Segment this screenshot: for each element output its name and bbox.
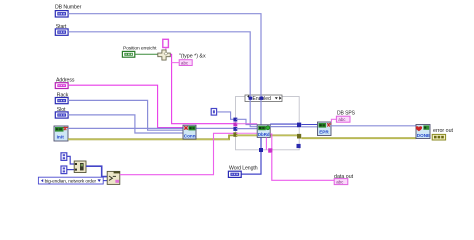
svg-text:abc: abc — [336, 179, 344, 184]
svg-text:DbRd: DbRd — [258, 132, 270, 137]
tunnel top 1 (Start) — [249, 97, 253, 100]
wires structure right to SPS vi — [301, 124, 317, 126]
wire branch to (type*)&x — [172, 62, 180, 64]
terminal DB SPS string indicator — [336, 116, 350, 122]
svg-text:Position erreicht: Position erreicht — [123, 46, 157, 52]
wire boolean to select — [135, 53, 158, 55]
diagram disable structure frame — [236, 97, 300, 150]
subVI Init (S7 init) — [54, 126, 68, 141]
wire constant into structure tunnel — [217, 112, 234, 119]
tunnel left 4 (error/type, olive) — [233, 132, 237, 137]
wire Rack to CONN vi — [68, 100, 183, 130]
type cast function — [107, 171, 120, 184]
wire error olive to DONE vi — [301, 137, 416, 139]
string constant (empty, pink) above select — [163, 39, 169, 47]
tunnel right 3 (unwired, blue) — [297, 144, 301, 148]
wire count tunnel to DBRD — [236, 119, 257, 124]
svg-text:"(type *) &x: "(type *) &x — [179, 54, 206, 60]
wire Init session out (lavender) to structure — [68, 127, 236, 129]
terminal data out string indicator — [334, 179, 348, 185]
svg-text:EPR: EPR — [319, 130, 329, 135]
tunnel top 2 (DB Number) — [260, 97, 264, 100]
svg-text:abc: abc — [181, 60, 189, 65]
wire SPS session out to DONE vi — [331, 125, 416, 127]
subVI SPS write — [318, 122, 332, 136]
enum constant big-endian, network order — [38, 177, 103, 185]
terminal Rack I32 control — [55, 98, 68, 104]
svg-text:DONE: DONE — [417, 133, 430, 138]
terminal Start I32 control — [55, 29, 68, 35]
svg-text:Init: Init — [57, 135, 65, 141]
subVI DONE (close) — [416, 125, 430, 139]
wire cast pink tunnel to DBRD — [236, 132, 257, 134]
wire DBRD data down to bottom tunnel (pink) — [265, 137, 267, 149]
select function node — [158, 50, 171, 60]
tunnel right 1 (blue) — [297, 123, 301, 128]
wire join output to cast — [86, 166, 107, 176]
wire constant2 to join — [67, 169, 74, 171]
wire constant1 to join — [67, 156, 74, 164]
wire word length up into structure (blue) — [241, 137, 261, 174]
terminal error out cluster indicator — [432, 134, 445, 140]
wire constant into select top — [165, 48, 167, 51]
terminal Address string control (pink) — [55, 83, 68, 89]
wire Start into structure — [68, 32, 257, 127]
svg-text:Conn: Conn — [184, 133, 196, 138]
wire DB Number to structure (down into DBRD) — [68, 14, 261, 126]
terminal DB Number I32 control — [55, 11, 68, 17]
wire Init error out (olive) — [68, 135, 234, 139]
subVI Conn (S7 connect) — [183, 125, 196, 139]
wire Slot to CONN vi — [68, 115, 183, 133]
wire enum to cast — [103, 180, 107, 182]
wire cast output (pink) up into structure — [120, 133, 234, 174]
constant 2 — [61, 166, 67, 174]
tunnel right 2 (olive) — [297, 134, 301, 139]
wire Address to CONN vi — [68, 85, 183, 127]
wire data out (pink) — [272, 153, 334, 181]
svg-text:abc: abc — [338, 117, 346, 122]
terminal Word Length I32 control — [228, 171, 241, 177]
svg-text:DB Number: DB Number — [55, 4, 82, 10]
structure selector label Enabled — [245, 95, 282, 102]
wire type tunnel to DBRD — [236, 123, 257, 125]
wire session tunnel to DBRD — [236, 128, 257, 130]
subVI DbRd (DB read) inside structure — [257, 125, 270, 138]
type cast chain: constant 1 — [61, 153, 67, 161]
join numbers function — [74, 161, 86, 173]
numeric constant small (word count) — [211, 109, 216, 116]
terminal (type *) &x string indicator — [179, 60, 192, 66]
tunnel bottom 1 (word length, blue) — [259, 148, 263, 152]
tunnel left 1 (count, blue) — [233, 118, 237, 122]
tunnel left 2 (type string, magenta) — [233, 123, 237, 127]
wire error olive across structure — [236, 134, 297, 136]
tunnel bottom 2 (data, pink) — [268, 148, 272, 152]
tunnel left 3 (session, blue) — [233, 127, 237, 131]
terminal Slot I32 control — [55, 112, 68, 118]
wire DBRD outputs to right edge (blue + lavender) — [270, 123, 299, 125]
svg-text:error out: error out — [433, 128, 454, 134]
svg-text:big-endian, network order: big-endian, network order — [45, 179, 97, 185]
terminal Position erreicht TF boolean control — [122, 51, 134, 57]
wire SPS pink to DB SPS terminal — [331, 119, 336, 122]
wire select output down to structure tunnel and branch to abc terminal — [171, 54, 234, 123]
